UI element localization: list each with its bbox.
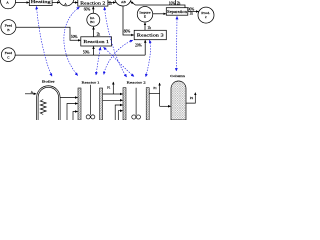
svg-text:E: E <box>144 15 146 19</box>
svg-text:1h: 1h <box>189 12 193 16</box>
svg-text:10%: 10% <box>169 1 176 5</box>
svg-text:P2: P2 <box>190 96 194 100</box>
svg-text:50%: 50% <box>71 35 78 39</box>
svg-text:2h: 2h <box>109 1 113 5</box>
svg-text:60%: 60% <box>84 8 91 12</box>
svg-text:Separation: Separation <box>167 10 187 14</box>
svg-text:Reaction 1: Reaction 1 <box>83 40 109 44</box>
svg-text:Boiler: Boiler <box>42 80 56 84</box>
svg-text:50%: 50% <box>83 51 90 55</box>
svg-text:80%: 80% <box>124 30 131 34</box>
svg-text:P1: P1 <box>153 86 157 90</box>
svg-text:Reaction 2: Reaction 2 <box>80 1 105 5</box>
svg-text:2h: 2h <box>177 1 181 5</box>
svg-text:BC: BC <box>90 20 95 24</box>
svg-text:1h: 1h <box>147 26 151 30</box>
svg-text:Column: Column <box>170 74 185 78</box>
svg-text:20%: 20% <box>135 43 142 47</box>
svg-text:P1: P1 <box>107 85 111 89</box>
svg-text:AB: AB <box>121 0 127 4</box>
svg-text:2h: 2h <box>97 33 101 37</box>
svg-text:Heating: Heating <box>31 0 51 4</box>
svg-text:Reactor 1: Reactor 1 <box>82 81 100 85</box>
svg-text:2: 2 <box>205 15 207 19</box>
svg-text:Reaction 3: Reaction 3 <box>137 34 164 38</box>
svg-text:Reactor 2: Reactor 2 <box>127 81 146 85</box>
